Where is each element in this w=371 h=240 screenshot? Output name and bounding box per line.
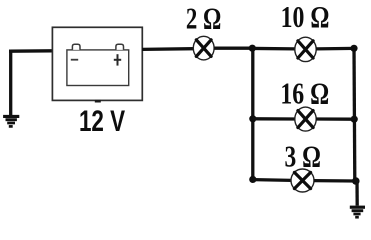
battery B1 plus sign	[114, 54, 121, 65]
svg-text:3 Ω: 3 Ω	[285, 139, 321, 173]
wire: right bus vertical (node D down to node F)	[352, 47, 356, 181]
node F (bottom-right junction)	[352, 177, 360, 185]
battery B1 body	[67, 50, 129, 86]
node C (bottom-left junction)	[249, 176, 256, 183]
wire: node C to lamp L4	[253, 178, 292, 182]
label: 3 ohm (value of L4)	[285, 139, 321, 173]
battery B1 negative terminal post	[72, 44, 80, 50]
node E (middle-right junction)	[351, 116, 358, 123]
battery box (outline around battery B1)	[52, 27, 142, 100]
battery B1 minus sign	[71, 59, 78, 61]
battery B1 positive terminal post	[116, 44, 124, 50]
label: 10 ohm (value of L2)	[281, 0, 330, 33]
wire: lamp L4 to node F	[314, 179, 356, 183]
wire: left bus vertical (node A down to node C)	[251, 47, 254, 180]
wire: node B to lamp L3	[253, 117, 295, 120]
node A (top-left junction)	[249, 45, 256, 52]
svg-text:2 Ω: 2 Ω	[186, 1, 221, 35]
ground GND2 (earth symbol, bottom right)	[350, 207, 365, 217]
wire: lamp L2 to node D	[316, 47, 354, 51]
svg-text:10 Ω: 10 Ω	[281, 0, 330, 33]
lamp L2 10 ohm (circle with X)	[295, 37, 316, 61]
lamp L3 16 ohm (circle with X)	[295, 107, 316, 131]
lamp L1 2 ohm (circle with X)	[193, 36, 214, 60]
ground GND1 (earth symbol, bottom left)	[3, 116, 19, 126]
wire: node F down to ground GND2	[355, 180, 359, 206]
tick mark on battery box bottom edge	[95, 100, 101, 103]
label: 16 ohm (value of L3)	[280, 77, 329, 110]
wire: node A to lamp L2	[253, 47, 295, 51]
wire: left horizontal segment from ground riser to battery box	[9, 49, 53, 53]
wire: left vertical drop to ground	[9, 50, 12, 115]
wire: lamp L1 to node A	[214, 47, 253, 50]
wire: battery box to lamp L1	[142, 47, 194, 51]
label: 12 V (battery value)	[79, 104, 126, 138]
lamp L4 3 ohm (circle with X)	[291, 169, 314, 192]
svg-text:12 V: 12 V	[79, 104, 126, 138]
node D (top-right junction)	[350, 45, 357, 52]
wire: lamp L3 to node E	[316, 117, 354, 120]
node B (middle-left junction)	[249, 115, 256, 122]
label: 2 ohm (value of L1)	[186, 1, 221, 35]
svg-text:16 Ω: 16 Ω	[280, 77, 329, 110]
